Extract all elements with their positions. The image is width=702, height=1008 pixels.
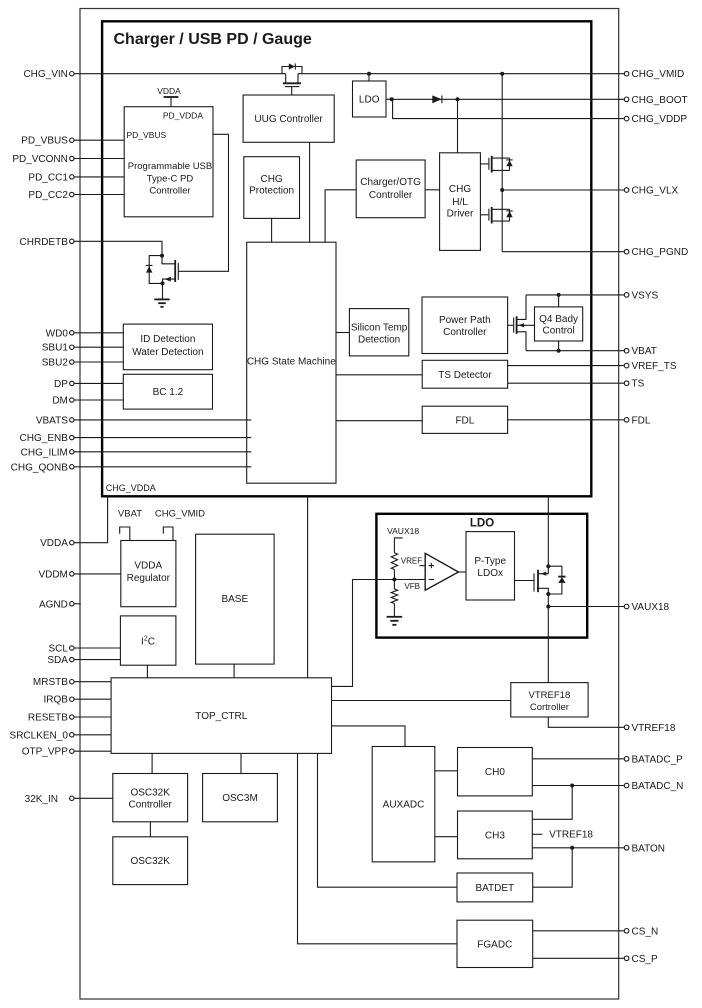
svg-text:Controller: Controller: [443, 327, 487, 338]
wire VFB node to op-amp -: [394, 579, 425, 581]
block CH3: [458, 811, 533, 859]
pin RESETB: [28, 713, 74, 724]
svg-text:VTREF18: VTREF18: [549, 830, 593, 841]
ground (Q2 source): [154, 299, 169, 306]
svg-text:Protection: Protection: [249, 185, 294, 196]
svg-text:PD_VBUS: PD_VBUS: [21, 136, 68, 147]
junction Q6 drain: [546, 592, 550, 596]
svg-text:TOP_CTRL: TOP_CTRL: [195, 711, 247, 722]
block ID Detection / Water Detection: [123, 324, 212, 370]
wire DM to BC 1.2: [74, 399, 124, 401]
junction Q2 drain: [160, 254, 164, 258]
wire FGADC to CS_P: [533, 957, 625, 959]
wire SBU2 to ID Detection: [74, 361, 124, 363]
svg-text:VTREF18: VTREF18: [632, 723, 676, 734]
block CHG Protection: [244, 157, 300, 219]
wire AUXADC to CH0: [435, 770, 458, 772]
svg-text:SRCLKEN_0: SRCLKEN_0: [10, 730, 69, 741]
svg-text:32K_IN: 32K_IN: [25, 794, 58, 805]
wire Charger/OTG Controller to CHG H/L Driver: [425, 189, 440, 191]
wire TS Detector to VREF_TS: [508, 365, 625, 367]
svg-text:OTP_VPP: OTP_VPP: [22, 747, 68, 758]
pin OTP_VPP: [22, 747, 74, 758]
pin CHG_BOOT: [624, 95, 687, 106]
pin CHG_VIN: [23, 69, 74, 80]
svg-text:BATADC_P: BATADC_P: [632, 754, 684, 765]
wire LDO input stub: [368, 74, 370, 81]
pin IRQB: [43, 695, 74, 706]
svg-text:Controller: Controller: [149, 185, 190, 196]
svg-text:Cortroller: Cortroller: [530, 702, 569, 713]
svg-text:LDO: LDO: [359, 95, 380, 106]
svg-text:OSC32K: OSC32K: [130, 788, 170, 799]
wire PD_VCONN to U1: [74, 158, 125, 160]
svg-text:Power Path: Power Path: [439, 315, 491, 326]
pin BATON: [624, 843, 665, 854]
pin AGND: [39, 599, 74, 610]
pin PD_VBUS: [21, 136, 74, 147]
wire CHG State Machine to Charger/OTG Controller: [325, 190, 356, 242]
wire R1 to VFB node: [393, 570, 395, 580]
pin BATADC_P: [624, 754, 683, 765]
svg-text:VBATS: VBATS: [36, 415, 68, 426]
svg-text:VBAT: VBAT: [632, 346, 657, 357]
svg-text:H/L: H/L: [452, 197, 468, 208]
diode D1 (Q1 body diode): [282, 63, 302, 73]
block OSC32K Controller: [113, 774, 188, 822]
wire CHRDETB to Q2 drain: [74, 241, 162, 255]
junction CHG_VLX node: [500, 188, 504, 192]
block Charger/OTG Controller: [356, 160, 425, 218]
wire CHG Protection to CHG State Machine: [271, 218, 273, 242]
pin WD0: [46, 328, 74, 339]
block OSC3M: [203, 774, 278, 822]
wire BATON to BATDET: [533, 848, 573, 887]
pin CHG_VMID: [624, 69, 684, 80]
wire VDDM to VDDA Regulator: [74, 573, 121, 575]
svg-text:Water Detection: Water Detection: [132, 347, 203, 358]
block BASE: [196, 534, 275, 664]
wire SRCLKEN_0 to TOP_CTRL: [74, 734, 112, 736]
power VDDA (supply bar above U1): [164, 97, 179, 107]
wire SBU1 to ID Detection: [74, 346, 124, 348]
block VDDA Regulator: [121, 541, 176, 607]
svg-text:Controller: Controller: [369, 190, 413, 201]
wire VBATS to CHG State Machine: [74, 419, 252, 421]
block U1 Programmable USB Type-C PD Controller: [124, 107, 213, 217]
svg-text:ID Detection: ID Detection: [140, 334, 195, 345]
svg-text:OSC3M: OSC3M: [222, 793, 258, 804]
pin DP: [54, 379, 74, 390]
resistor R1 (feedback divider top): [391, 553, 397, 570]
block AUXADC: [372, 747, 435, 862]
junction LDO output: [390, 97, 394, 101]
wire Charger block to TOP_CTRL: [307, 496, 309, 678]
svg-text:SBU1: SBU1: [42, 343, 69, 354]
pin VSYS: [624, 290, 658, 301]
block FDL: [422, 406, 507, 433]
wire VAUX18: [548, 606, 624, 608]
svg-text:P-Type: P-Type: [474, 556, 506, 567]
wire CHG State Machine to TS Detector: [336, 374, 422, 376]
junction at Q3 drain on CHG_VMID rail: [500, 72, 504, 76]
wire IRQB to TOP_CTRL: [74, 698, 112, 700]
svg-text:BATDET: BATDET: [475, 883, 514, 894]
svg-text:CS_P: CS_P: [632, 954, 658, 965]
svg-text:VBAT: VBAT: [118, 509, 142, 520]
block FGADC: [457, 920, 533, 967]
svg-text:VAUX18: VAUX18: [387, 526, 419, 536]
svg-text:DP: DP: [54, 379, 68, 390]
wire TOP_CTRL to VTREF18 Cortroller: [332, 700, 511, 702]
svg-text:BC 1.2: BC 1.2: [153, 387, 184, 398]
wire WD0 to ID Detection: [74, 332, 124, 334]
svg-text:Charger/OTG: Charger/OTG: [360, 177, 421, 188]
svg-text:CH3: CH3: [485, 830, 505, 841]
resistor R2 (feedback divider bottom): [393, 580, 395, 590]
svg-text:PD_CC2: PD_CC2: [28, 190, 68, 201]
junction Q6 source: [546, 564, 550, 568]
svg-text:FGADC: FGADC: [477, 939, 512, 950]
junction BATADC_N / CH3: [570, 784, 574, 788]
junction VFB node: [392, 578, 396, 582]
wire CHG_VDDP branch: [393, 99, 625, 118]
svg-text:VFB: VFB: [404, 582, 420, 591]
svg-text:CHG_ENB: CHG_ENB: [20, 433, 69, 444]
svg-text:VDDM: VDDM: [38, 569, 67, 580]
svg-text:CHG_PGND: CHG_PGND: [632, 247, 689, 258]
pin SRCLKEN_0: [10, 730, 74, 741]
wire PD_CC1 to U1: [74, 176, 125, 178]
diode D3 (Q2 body diode): [146, 256, 163, 284]
wire FGADC to CS_N: [533, 930, 625, 932]
wire Charger block to Q6 source: [547, 496, 549, 566]
block Silicon Temp Detection: [349, 309, 408, 356]
svg-text:Controller: Controller: [129, 800, 173, 811]
svg-text:CHG_VLX: CHG_VLX: [632, 186, 679, 197]
svg-text:TS: TS: [632, 379, 645, 390]
block P-Type LDOx: [466, 532, 515, 600]
svg-text:VTREF18: VTREF18: [529, 690, 571, 701]
svg-text:AUXADC: AUXADC: [383, 800, 425, 811]
svg-text:PD_VCONN: PD_VCONN: [12, 154, 68, 165]
svg-text:CHG_VIN: CHG_VIN: [23, 69, 67, 80]
svg-text:VREF_TS: VREF_TS: [632, 361, 677, 372]
wire VBAT: [526, 350, 624, 352]
wire TS Detector to TS: [508, 382, 625, 384]
transistor Q3 (high-side NFET): [480, 156, 509, 173]
svg-text:LDO: LDO: [470, 517, 494, 529]
wire CHG_VIN to Q1 drain: [74, 73, 286, 75]
wire CH3 to BATON: [532, 847, 624, 849]
transistor Q2 (CHRDETB NMOS): [162, 256, 229, 300]
svg-text:CH0: CH0: [485, 767, 505, 778]
wire OTP_VPP to TOP_CTRL: [74, 750, 112, 752]
wire BASE to TOP_CTRL: [233, 664, 235, 678]
svg-text:PD_VBUS: PD_VBUS: [127, 130, 167, 140]
transistor Q1 (input PMOS): [283, 74, 301, 95]
pin FDL: [624, 415, 651, 426]
pin VDDM: [38, 569, 74, 580]
wire TOP_CTRL to BATDET: [318, 753, 458, 887]
svg-text:FDL: FDL: [455, 415, 474, 426]
svg-text:Programmable USB: Programmable USB: [128, 161, 212, 172]
svg-text:Detection: Detection: [358, 334, 400, 345]
wire CH3 VTREF18 stub: [532, 833, 542, 835]
chip outer boundary: [80, 9, 619, 1000]
wire CH0 to BATADC_N: [532, 785, 624, 787]
svg-text:VSYS: VSYS: [632, 290, 659, 301]
pin CS_P: [624, 954, 658, 965]
transistor Q4 (power path PFET): [508, 295, 535, 350]
svg-text:SBU2: SBU2: [42, 358, 69, 369]
wire SDA to I2C: [74, 659, 121, 661]
wire RESETB to TOP_CTRL: [74, 716, 112, 718]
wire UUG Controller to CHG State Machine: [309, 142, 311, 242]
svg-text:MRSTB: MRSTB: [33, 677, 68, 688]
wire AGND stub: [74, 603, 81, 605]
svg-text:SDA: SDA: [47, 655, 68, 666]
wire Q4 Bady Control to VBAT: [558, 341, 560, 351]
wire boot node to CHG H/L Driver: [457, 99, 459, 153]
wire VDDA to CHG_VDDA net: [74, 496, 108, 542]
diode D5 (Q5 body diode): [506, 209, 512, 221]
pin PD_VCONN: [12, 154, 74, 165]
wire DP to BC 1.2: [74, 382, 124, 384]
pin CHG_ILIM: [21, 447, 74, 458]
wire Q6 drain to VAUX18 node: [547, 594, 549, 683]
pin MRSTB: [33, 677, 74, 688]
wire VSYS: [526, 294, 624, 296]
wire CHG_ENB to CHG State Machine: [74, 437, 252, 439]
pin CHG_QONB: [11, 462, 74, 473]
wire FDL output: [508, 419, 625, 421]
junction boot node: [456, 97, 460, 101]
svg-text:Regulator: Regulator: [127, 573, 171, 584]
block BC 1.2: [123, 374, 212, 409]
junction VSYS / Q4 Bady Control: [557, 293, 561, 297]
wire CHG State Machine to FDL: [336, 420, 422, 422]
block CHG H/L Driver: [440, 153, 481, 251]
svg-text:CHG_QONB: CHG_QONB: [11, 462, 69, 473]
svg-text:CHG_BOOT: CHG_BOOT: [632, 95, 688, 106]
pin CHG_VLX: [624, 186, 678, 197]
diode D4 (Q3 body diode): [506, 158, 512, 170]
svg-text:VDDA: VDDA: [134, 561, 162, 572]
svg-text:I2C: I2C: [141, 636, 155, 648]
wire PD_CC2 to U1: [74, 194, 125, 196]
wire TOP_CTRL to OSC32K Controller: [151, 753, 153, 773]
svg-text:CHG State Machine: CHG State Machine: [247, 356, 336, 367]
pin CS_N: [624, 926, 658, 937]
pin SBU1: [42, 343, 74, 354]
pin CHRDETB: [20, 237, 74, 248]
transistor Q5 (low-side NFET): [480, 207, 509, 224]
pin VAUX18: [624, 602, 669, 613]
wire VREF to op-amp +: [420, 565, 426, 567]
svg-text:VDDA: VDDA: [40, 538, 68, 549]
svg-text:VREF: VREF: [401, 557, 422, 566]
block Charger / USB PD / Gauge (outline): [102, 21, 591, 496]
svg-text:BASE: BASE: [221, 594, 248, 605]
svg-text:VDDA: VDDA: [157, 86, 181, 96]
block CH0: [458, 748, 533, 796]
svg-text:Silicon Temp: Silicon Temp: [351, 322, 408, 333]
junction VAUX18 node: [546, 605, 550, 609]
pin VTREF18: [624, 723, 676, 734]
svg-text:CHG_VDDP: CHG_VDDP: [632, 114, 688, 125]
svg-text:FDL: FDL: [632, 415, 651, 426]
transistor Q6 (LDO pass PFET): [534, 566, 548, 594]
wire SCL to I2C: [74, 647, 121, 649]
svg-text:Driver: Driver: [447, 208, 474, 219]
pin VBAT: [624, 346, 657, 357]
svg-text:Q4 Bady: Q4 Bady: [539, 314, 578, 325]
svg-text:CHG_VMID: CHG_VMID: [632, 69, 685, 80]
svg-text:BATON: BATON: [632, 843, 666, 854]
block CHG State Machine: [247, 242, 336, 483]
wire OSC32K Controller to OSC32K: [149, 822, 151, 837]
block BATDET: [457, 873, 533, 902]
junction at LDO top on CHG_VMID rail: [367, 72, 371, 76]
wire CH0 to BATADC_P: [532, 758, 624, 760]
block Q4 Bady Control: [535, 307, 583, 341]
op-amp U2 (LDO error amp): [425, 553, 458, 590]
pin PD_CC2: [28, 190, 74, 201]
svg-text:Charger / USB PD / Gauge: Charger / USB PD / Gauge: [114, 31, 312, 48]
wire CHG_QONB to CHG State Machine: [74, 466, 252, 468]
wire AUXADC to CH3: [435, 836, 458, 838]
svg-text:PD_CC1: PD_CC1: [28, 172, 68, 183]
svg-text:CHRDETB: CHRDETB: [20, 237, 69, 248]
block LDO (outline): [376, 514, 587, 638]
svg-text:IRQB: IRQB: [43, 695, 68, 706]
svg-text:OSC32K: OSC32K: [130, 856, 170, 867]
svg-text:AGND: AGND: [39, 599, 68, 610]
svg-text:CHG_ILIM: CHG_ILIM: [21, 447, 68, 458]
junction VBAT / Q4 Bady Control: [557, 349, 561, 353]
svg-text:DM: DM: [52, 396, 68, 407]
wire BATADC_N to CH3: [532, 786, 572, 820]
svg-text:LDOx: LDOx: [477, 568, 503, 579]
junction Q2 source: [161, 281, 165, 285]
node CHG_VMID (supply flag): [155, 509, 205, 541]
wire 32K_IN to OSC32K Controller: [74, 797, 113, 799]
block TS Detector: [422, 360, 507, 388]
wire CHG_VLX: [502, 189, 624, 191]
svg-text:WD0: WD0: [46, 328, 69, 339]
wire MRSTB to TOP_CTRL: [74, 681, 112, 683]
pin CHG_PGND: [624, 247, 688, 258]
pin VREF_TS: [624, 361, 677, 372]
svg-text:Control: Control: [542, 326, 574, 337]
svg-text:SCL: SCL: [48, 644, 68, 655]
block I2C: [120, 616, 175, 665]
wire VTREF18 Cortroller output: [548, 717, 624, 727]
pin VBATS: [36, 415, 74, 426]
wire op-amp to P-Type LDOx: [459, 571, 467, 573]
pin 32K_IN: [25, 794, 74, 805]
pin SCL: [48, 644, 74, 655]
svg-text:CHG_VDDA: CHG_VDDA: [106, 483, 156, 493]
svg-text:RESETB: RESETB: [28, 713, 68, 724]
wire CHG_ILIM to CHG State Machine: [74, 451, 252, 453]
svg-text:CHG: CHG: [449, 184, 471, 195]
svg-text:VAUX18: VAUX18: [632, 602, 670, 613]
wire U1 output to Q2 gate: [213, 134, 229, 271]
svg-text:CHG: CHG: [260, 174, 282, 185]
block UUG Controller: [243, 95, 334, 142]
wire VSYS to Q4 Bady Control: [558, 295, 560, 307]
wire CHG_VMID rail to Q3/Q5/CHG_PGND: [501, 74, 503, 252]
wire P-Type LDOx to Q6 gate: [515, 580, 534, 582]
svg-text:TS Detector: TS Detector: [438, 370, 492, 381]
pin PD_CC1: [28, 172, 74, 183]
wire TOP_CTRL to FGADC: [298, 753, 458, 943]
svg-text:CHG_VMID: CHG_VMID: [155, 509, 205, 520]
svg-text:BATADC_N: BATADC_N: [632, 781, 684, 792]
svg-text:PD_VDDA: PD_VDDA: [163, 111, 203, 121]
pin SBU2: [42, 358, 74, 369]
node VAUX18 (supply flag in LDO block): [387, 526, 419, 553]
pin TS: [624, 379, 644, 390]
wire TOP_CTRL to LDO VFB node: [332, 580, 395, 687]
wire I2C to TOP_CTRL: [146, 665, 148, 678]
svg-text:Type-C PD: Type-C PD: [147, 173, 194, 184]
wire TOP_CTRL to OSC3M: [240, 753, 242, 773]
wire CHG_PGND: [502, 251, 624, 253]
diode D6 (Q6 body diode): [548, 566, 565, 594]
block LDO (top regulator): [353, 81, 387, 117]
pin DM: [52, 396, 74, 407]
svg-text:UUG Controller: UUG Controller: [254, 114, 323, 125]
block TOP_CTRL: [111, 678, 331, 754]
wire CHG_VMID rail: [298, 73, 624, 75]
block OSC32K: [113, 837, 188, 885]
pin CHG_VDDP: [624, 114, 687, 125]
ground (LDO divider): [387, 617, 403, 625]
pin CHG_ENB: [20, 433, 74, 444]
node VBAT (supply flag): [118, 509, 142, 541]
block VTREF18 Cortroller: [511, 683, 588, 717]
pin BATADC_N: [624, 781, 683, 792]
block Power Path Controller: [422, 297, 508, 354]
pin SDA: [47, 655, 74, 666]
junction BATON / BATDET: [570, 846, 574, 850]
wire CHG State Machine to Silicon Temp Detection: [336, 332, 349, 334]
wire TOP_CTRL to AUXADC: [332, 726, 406, 747]
diode D2 (boot diode): [432, 95, 442, 103]
pin VDDA: [40, 538, 74, 549]
wire PD_VBUS to U1: [74, 139, 125, 141]
wire LDO output / CHG_BOOT: [386, 98, 624, 100]
svg-text:CS_N: CS_N: [632, 926, 659, 937]
